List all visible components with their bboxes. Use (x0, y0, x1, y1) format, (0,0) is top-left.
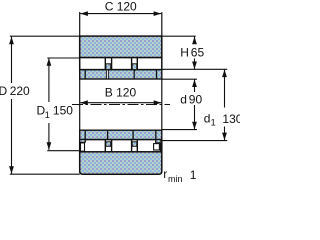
right face bore extension (161, 79, 163, 130)
top band end dividers (85, 70, 156, 79)
extension line d bottom right (162, 129, 197, 131)
svg-text:d: d (204, 111, 211, 125)
bottom cage bar 2 (132, 142, 137, 147)
svg-text:150: 150 (53, 104, 73, 118)
svg-text:130: 130 (222, 112, 240, 126)
bottom band slot notch (108, 130, 134, 139)
svg-text:H: H (180, 46, 189, 60)
svg-text:1: 1 (190, 168, 197, 182)
svg-text:D: D (0, 84, 8, 98)
svg-text:90: 90 (189, 93, 203, 107)
extension line d1 bottom right (162, 140, 227, 142)
svg-text:65: 65 (191, 46, 205, 60)
left face bore extension (79, 79, 81, 130)
svg-text:d: d (180, 93, 187, 107)
extension line d1 top right (162, 68, 227, 70)
svg-text:min: min (168, 174, 183, 182)
extension line H top right (162, 35, 196, 37)
svg-text:220: 220 (10, 84, 30, 98)
dimension H line (192, 37, 197, 70)
extension line D1 top (47, 57, 79, 59)
outer ring top block (80, 36, 162, 58)
bottom band end dividers (85, 130, 156, 143)
bottom band right end piece (154, 140, 161, 152)
dimension B line (80, 100, 161, 105)
extension line d top right (162, 78, 197, 80)
dimension d1 line (222, 70, 227, 141)
extension line D top (10, 35, 80, 37)
svg-text:C 120: C 120 (105, 0, 137, 13)
dimension d line (192, 79, 197, 129)
svg-text:1: 1 (211, 117, 216, 127)
svg-text:B 120: B 120 (105, 86, 137, 100)
centerline (72, 104, 170, 106)
outer ring bottom block (80, 152, 162, 174)
dimension D line (9, 37, 14, 174)
extension line D1 bottom (47, 150, 79, 152)
bottom cage bar 1 (106, 142, 111, 147)
dimension D1 line (47, 58, 52, 150)
top cage bar 2 (132, 64, 137, 72)
svg-text:1: 1 (45, 110, 50, 120)
inner ring top band (80, 70, 162, 79)
left face extension line (full) (79, 12, 81, 36)
top roller row (80, 58, 162, 70)
extension line D bottom (10, 173, 80, 175)
bottom roller row (80, 140, 162, 152)
dimension C line (80, 11, 161, 16)
svg-text:r: r (163, 167, 167, 181)
inner ring bottom band (80, 130, 162, 139)
top band slot notches (106, 70, 134, 79)
bottom band left end piece (80, 140, 86, 152)
right face extension line (161, 12, 163, 36)
top cage bar 1 (106, 64, 111, 72)
